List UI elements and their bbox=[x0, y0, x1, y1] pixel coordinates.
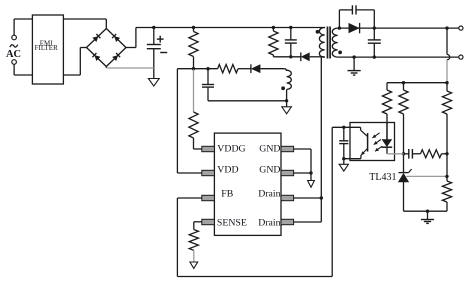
svg-text:FB: FB bbox=[221, 188, 233, 199]
svg-text:TL431: TL431 bbox=[369, 172, 396, 183]
svg-text:Drain: Drain bbox=[258, 218, 280, 229]
svg-text:SENSE: SENSE bbox=[217, 218, 247, 229]
svg-text:AC: AC bbox=[6, 49, 21, 60]
svg-text:GND: GND bbox=[259, 164, 280, 175]
svg-text:FILTER: FILTER bbox=[35, 44, 58, 52]
svg-text:VDDG: VDDG bbox=[217, 143, 245, 154]
svg-text:GND: GND bbox=[259, 143, 280, 154]
svg-text:Drain: Drain bbox=[258, 188, 280, 199]
svg-text:VDD: VDD bbox=[217, 164, 238, 175]
